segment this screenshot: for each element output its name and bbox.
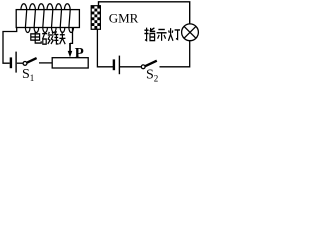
svg-text:S2: S2 — [146, 68, 158, 83]
wire coil right lead to wiper — [70, 28, 73, 44]
示 — [157, 29, 167, 40]
wiper arrow P — [69, 43, 71, 52]
battery B1 — [11, 52, 16, 73]
battery B2 — [114, 56, 120, 75]
wire left lead of coil — [3, 28, 17, 64]
switch S2 — [145, 61, 157, 66]
electromagnet coil — [21, 4, 74, 33]
wire switch S1 to rheostat — [39, 62, 52, 64]
灯 — [168, 28, 180, 41]
label 电磁铁 (hand-drawn glyphs) — [31, 31, 66, 44]
label 指示灯 (hand-drawn glyphs) — [144, 28, 180, 41]
wire GMR top to top rail to lamp — [99, 2, 190, 24]
rheostat R — [52, 58, 88, 68]
指 — [144, 28, 155, 41]
svg-text:GMR: GMR — [109, 10, 139, 25]
电 — [31, 32, 41, 44]
GMR element (checkered resistor) — [91, 6, 100, 30]
switch S1 — [23, 62, 27, 66]
wire battery B2 to GMR bottom lead — [97, 29, 113, 67]
磁 — [42, 32, 53, 44]
electromagnet core — [16, 10, 79, 28]
svg-text:P: P — [75, 45, 84, 61]
wire battery to switch S1 — [17, 62, 23, 64]
indicator lamp — [182, 24, 199, 41]
wire lamp bottom to bottom rail — [160, 41, 190, 67]
svg-text:S1: S1 — [22, 67, 34, 83]
铁 — [54, 31, 65, 44]
wire switch S2 to battery B2 — [120, 66, 141, 68]
